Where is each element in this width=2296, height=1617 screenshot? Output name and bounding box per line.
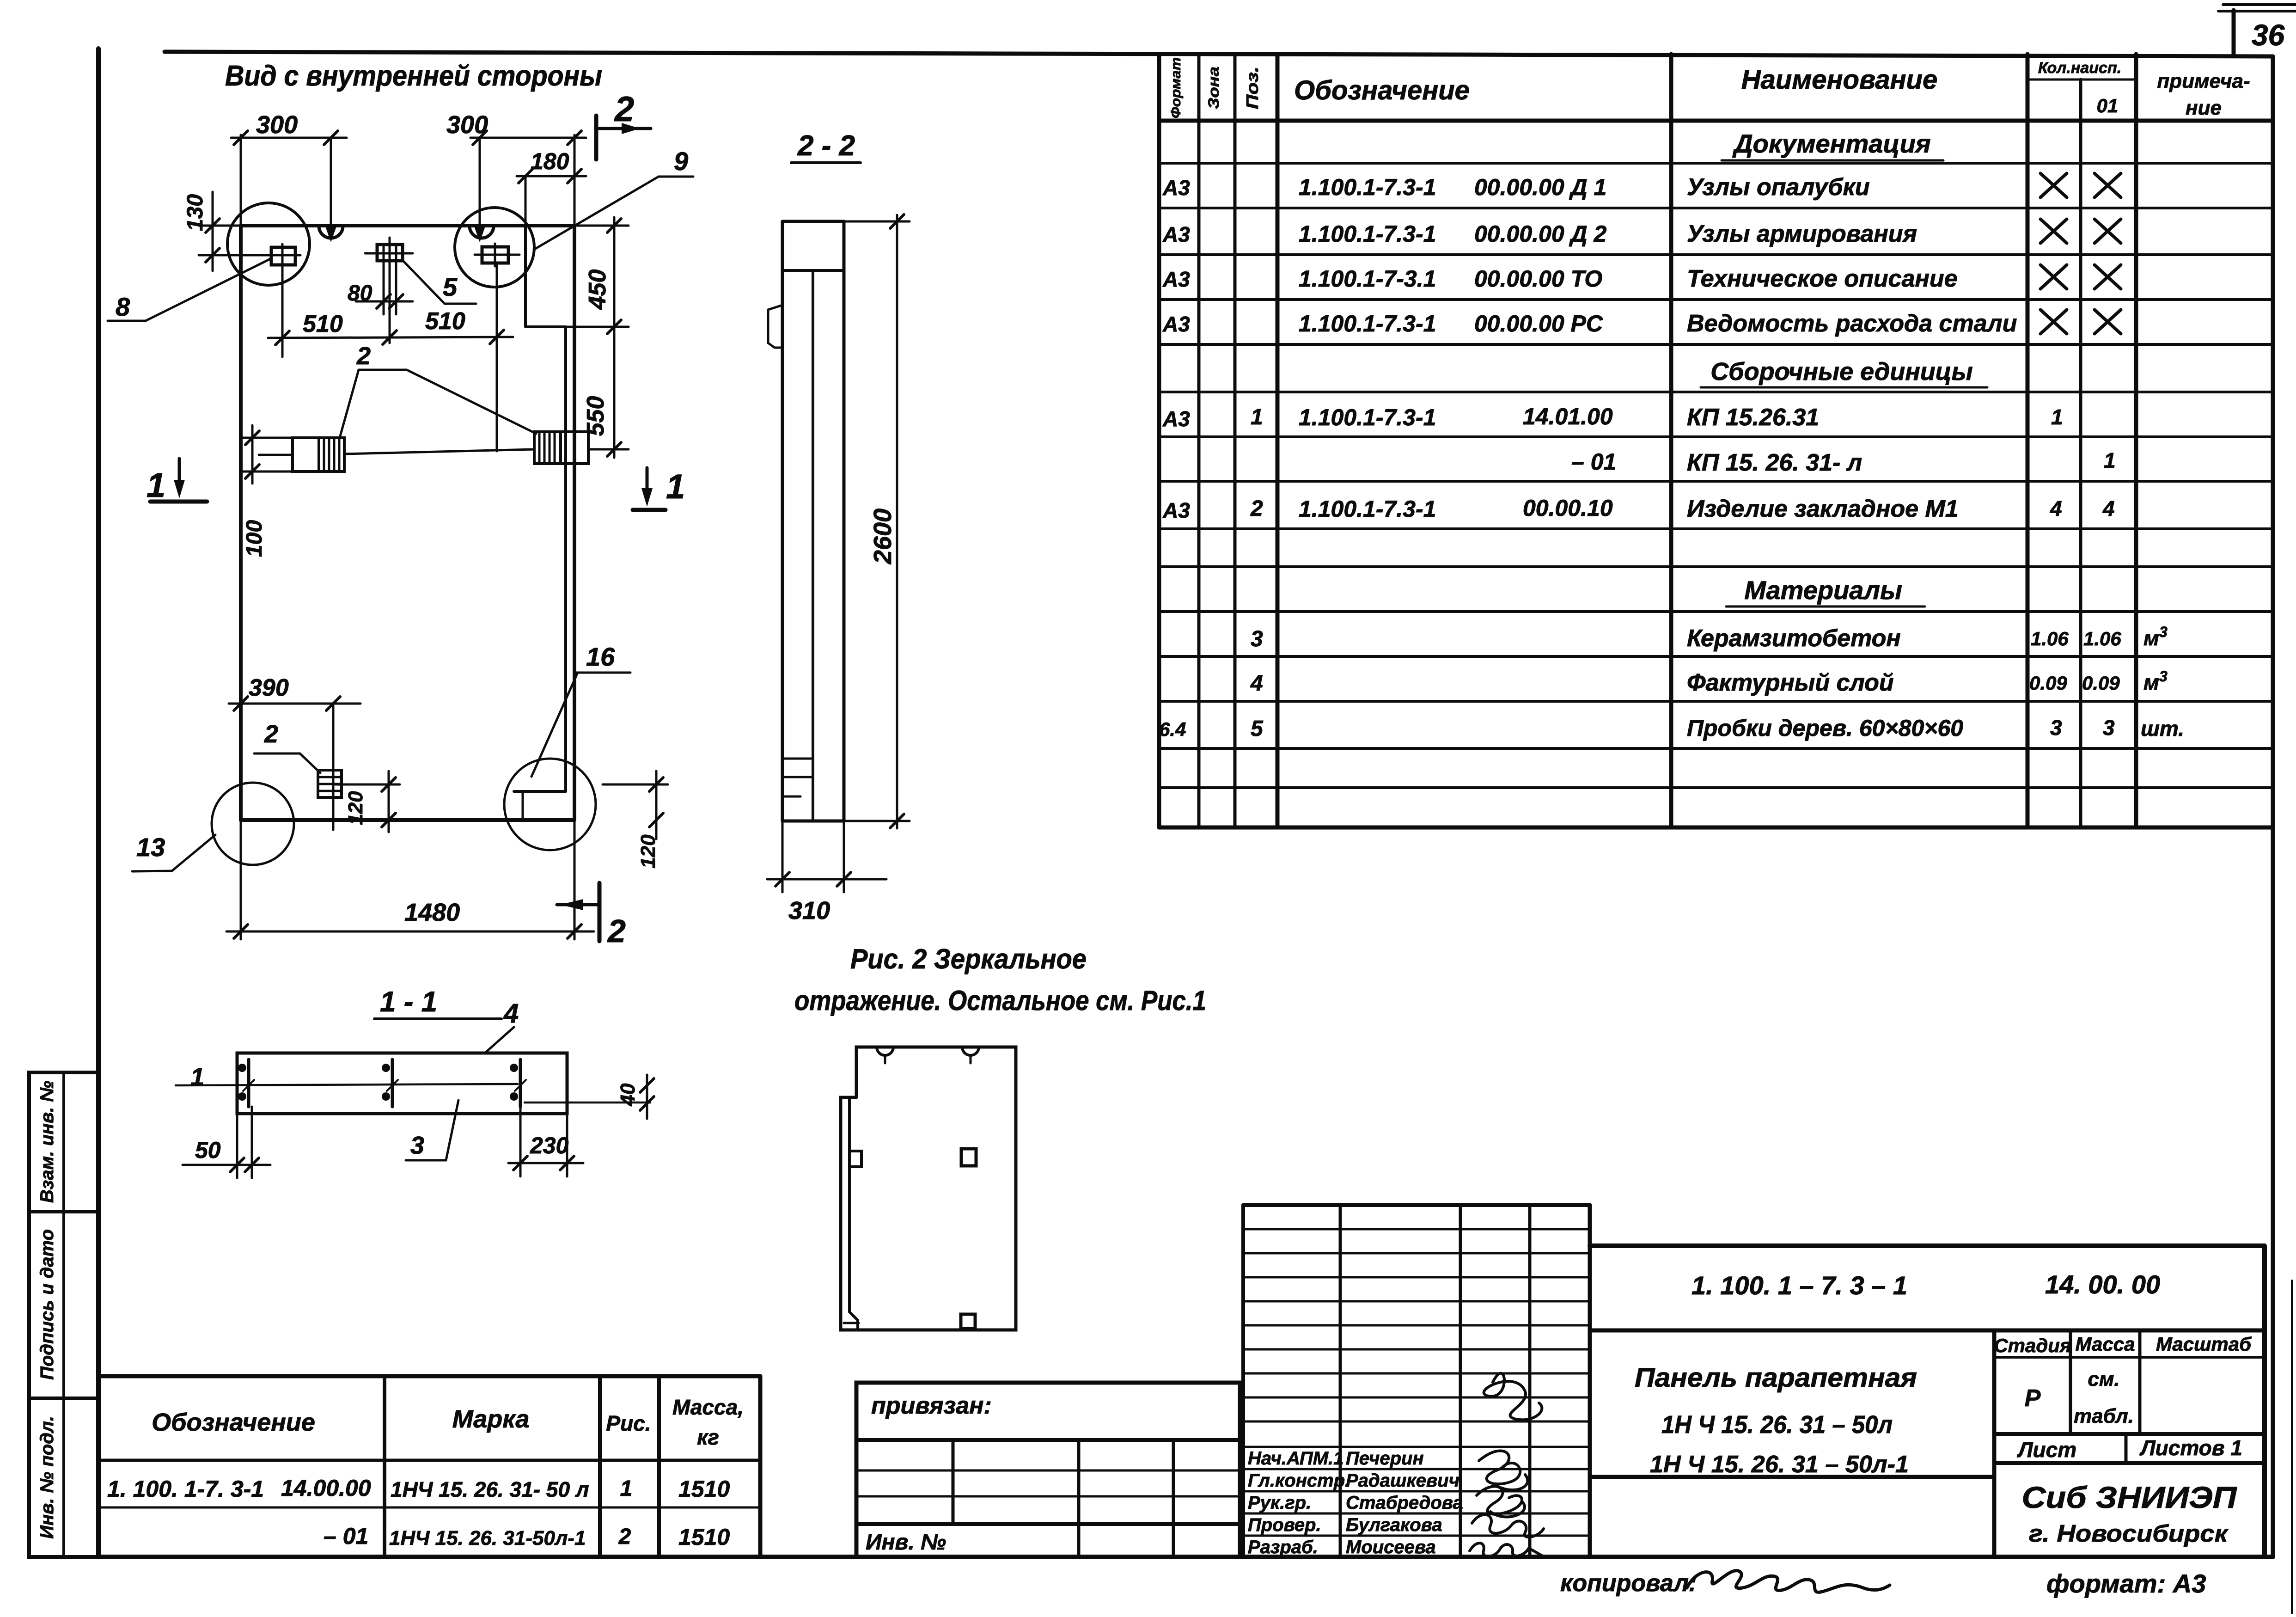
svg-text:00.00.00 Д 2: 00.00.00 Д 2 [1474,221,1607,247]
svg-text:2: 2 [614,90,634,129]
svg-text:8: 8 [116,292,130,321]
svg-text:2 - 2: 2 - 2 [797,130,855,162]
svg-text:Масштаб: Масштаб [2156,1333,2252,1355]
svg-text:1НЧ 15. 26. 31-50л-1: 1НЧ 15. 26. 31-50л-1 [389,1527,586,1550]
svg-text:00.00.00 ТО: 00.00.00 ТО [1474,266,1602,292]
svg-text:550: 550 [582,396,609,436]
svg-text:А3: А3 [1162,267,1190,291]
anchor line lower plate [332,704,335,830]
svg-text:см.: см. [2088,1368,2119,1390]
embedded plate top right [482,247,508,263]
svg-text:Гл.констр.: Гл.констр. [1248,1470,1350,1491]
svg-text:2600: 2600 [869,508,897,564]
bottom-left table outer [98,1374,760,1378]
svg-text:г. Новосибирск: г. Новосибирск [2029,1520,2229,1547]
svg-text:А3: А3 [1162,407,1190,431]
section 2-2 left fin [768,305,782,348]
svg-text:4: 4 [503,998,519,1029]
svg-text:шт.: шт. [2141,717,2184,741]
svg-text:Поз.: Поз. [1243,67,1262,109]
plan view inner left line [848,1097,851,1312]
svg-text:отражение. Остальное см. Ри: отражение. Остальное см. Рис.1 [794,985,1206,1016]
svg-text:1.06: 1.06 [2031,628,2069,649]
svg-text:13: 13 [136,833,165,862]
svg-text:формат: А3: формат: А3 [2046,1569,2206,1598]
svg-text:390: 390 [249,674,289,701]
svg-text:230: 230 [530,1133,569,1158]
svg-text:Моисеева: Моисеева [1346,1537,1436,1557]
svg-text:1: 1 [147,466,165,504]
svg-text:Лист: Лист [2017,1438,2076,1462]
svg-text:Вид с внутренней стороны: Вид с внутренней стороны [225,60,602,92]
anchor line below top-right plate [496,263,498,451]
svg-text:Рис.: Рис. [606,1411,651,1435]
plan view middle hole [961,1149,976,1166]
panel inner right edge line [564,327,567,791]
svg-text:1НЧ 15. 26. 31- 50 л: 1НЧ 15. 26. 31- 50 л [391,1477,589,1501]
svg-text:14.00.00: 14.00.00 [281,1475,371,1501]
svg-text:3: 3 [1251,627,1263,651]
svg-text:м: м [2143,626,2159,650]
svg-text:120: 120 [344,791,367,825]
spec table bottom [1159,826,2273,830]
svg-text:100: 100 [242,520,267,557]
svg-text:0.09: 0.09 [2082,672,2120,694]
sheet frame left border [96,49,101,1557]
svg-text:300: 300 [256,111,298,139]
svg-text:примеча-: примеча- [2157,70,2250,92]
svg-text:2: 2 [607,913,626,949]
callout circle bottom right [504,759,596,850]
panel top-right notch [524,226,527,327]
callout circle top left [227,203,310,285]
spec table header bottom [1159,119,2273,123]
signature table name rows [1243,1446,1590,1448]
svg-text:4: 4 [2050,496,2062,521]
svg-text:14.01.00: 14.01.00 [1523,404,1613,429]
svg-text:3: 3 [2159,624,2168,640]
panel outline [239,226,243,820]
svg-text:– 01: – 01 [1571,449,1616,475]
section 1-1 facing layer line [525,1102,650,1104]
svg-text:16: 16 [586,642,615,671]
panel bottom-right joint [514,790,566,793]
sheet frame top border [165,52,2273,56]
svg-text:1 - 1: 1 - 1 [380,986,437,1018]
svg-text:1. 100. 1 – 7. 3 – 1: 1. 100. 1 – 7. 3 – 1 [1691,1271,1907,1300]
section 2-2 bottom joint lines [782,758,813,760]
svg-text:Марка: Марка [452,1405,530,1433]
section 2-2 cap bottom [782,269,844,272]
svg-text:1: 1 [1251,405,1263,429]
svg-text:1510: 1510 [678,1476,730,1502]
svg-text:Взам. инв. №: Взам. инв. № [37,1081,57,1203]
section 1-1 axis line [176,1084,518,1085]
section 1-1 slab outline [237,1053,567,1114]
svg-text:4: 4 [1250,671,1263,696]
svg-text:КП 15. 26. 31- л: КП 15. 26. 31- л [1687,449,1862,476]
svg-text:1Н Ч 15. 26. 31 – 50л: 1Н Ч 15. 26. 31 – 50л [1661,1411,1893,1439]
svg-text:м: м [2143,670,2159,694]
svg-text:9: 9 [674,147,688,176]
plan view left slot [849,1151,861,1167]
svg-text:Материалы: Материалы [1744,576,1902,605]
privyazan block outer [856,1383,1240,1557]
svg-text:Кол.наисп.: Кол.наисп. [2038,59,2121,77]
page number box 36 [2232,10,2236,55]
svg-text:Обозначение: Обозначение [152,1409,315,1436]
svg-text:1: 1 [666,467,685,506]
svg-text:Стабредова: Стабредова [1346,1493,1463,1513]
svg-text:Изделие закладное М1: Изделие закладное М1 [1687,496,1959,522]
svg-text:2: 2 [1250,496,1263,521]
svg-text:1Н Ч 15. 26. 31 – 50л-1: 1Н Ч 15. 26. 31 – 50л-1 [1650,1451,1909,1478]
svg-text:510: 510 [303,311,343,337]
section 2-2 inner rib [812,270,814,821]
svg-text:1. 100. 1-7. 3-1: 1. 100. 1-7. 3-1 [107,1476,264,1502]
svg-text:00.00.00 Д 1: 00.00.00 Д 1 [1474,174,1606,200]
svg-text:кг: кг [697,1425,719,1449]
svg-text:Техническое описание: Техническое описание [1687,265,1958,292]
svg-text:Стадия: Стадия [1994,1335,2071,1356]
name cell bottom [1590,1475,1994,1479]
connecting line between loops [344,449,534,454]
svg-text:А3: А3 [1162,312,1190,336]
plan view bottom-left notch [849,1312,858,1330]
svg-text:14. 00. 00: 14. 00. 00 [2045,1270,2160,1299]
svg-text:Пробки дерев. 60×80×60: Пробки дерев. 60×80×60 [1687,715,1963,741]
svg-text:5: 5 [1251,717,1264,741]
title block top edge [1590,1243,2265,1248]
callout circle bottom left [212,783,294,865]
svg-text:копировал:: копировал: [1560,1570,1697,1597]
svg-text:180: 180 [531,148,569,174]
svg-text:1.100.1-7.3-1: 1.100.1-7.3-1 [1299,496,1436,522]
svg-text:1: 1 [620,1476,633,1501]
svg-text:Рис. 2 Зеркальное: Рис. 2 Зеркальное [850,943,1087,974]
plan view top ears [877,1047,893,1055]
svg-text:Радашкевич: Радашкевич [1346,1470,1459,1491]
title block signature table outer [1243,1203,1590,1207]
svg-text:Сборочные единицы: Сборочные единицы [1710,358,1973,386]
privyazan columns [952,1440,955,1524]
svg-text:40: 40 [617,1083,639,1106]
svg-text:3: 3 [2103,716,2115,740]
svg-text:1.100.1-7-3.1: 1.100.1-7-3.1 [1299,266,1436,292]
svg-text:1.100.1-7.3-1: 1.100.1-7.3-1 [1299,221,1436,247]
svg-text:– 01: – 01 [324,1523,368,1549]
spec table header underline kol.na isp. [2027,79,2136,81]
section mark 2 bottom [598,883,602,941]
svg-text:50: 50 [195,1137,221,1163]
svg-text:1.100.1-7.3-1: 1.100.1-7.3-1 [1299,311,1436,337]
anchor line below top-left plate [281,265,284,357]
spec table row lines [1159,162,2273,165]
svg-text:4: 4 [2102,496,2115,521]
svg-text:Рук.гр.: Рук.гр. [1248,1493,1311,1513]
svg-text:А3: А3 [1162,498,1190,522]
svg-text:Разраб.: Разраб. [1248,1537,1318,1557]
svg-text:Масса: Масса [2076,1333,2135,1355]
scan edge artifact line right [2291,1280,2293,1613]
svg-text:2: 2 [264,720,278,748]
svg-text:Ведомость расхода стали: Ведомость расхода стали [1687,310,2017,337]
svg-text:2: 2 [356,342,371,370]
svg-text:450: 450 [584,269,611,310]
svg-text:Фактурный слой: Фактурный слой [1687,669,1894,696]
svg-text:00.00.10: 00.00.10 [1523,495,1613,521]
svg-text:00.00.00 РС: 00.00.00 РС [1474,311,1603,337]
svg-text:Печерин: Печерин [1346,1448,1424,1469]
svg-text:1510: 1510 [678,1524,730,1550]
svg-text:3: 3 [2159,668,2168,685]
svg-text:0.09: 0.09 [2029,672,2067,694]
svg-text:Керамзитобетон: Керамзитобетон [1687,625,1901,652]
svg-text:1: 1 [2051,405,2063,429]
svg-text:01: 01 [2097,95,2119,116]
lifting recess right [470,226,494,238]
svg-text:Инв. № подл.: Инв. № подл. [37,1416,57,1539]
section 2-2 outline [782,220,844,223]
signature table thin rows [1243,1228,1590,1231]
rebar symbols [247,1060,250,1107]
callout circle top right [455,208,534,287]
svg-text:Подпись и дато: Подпись и дато [37,1229,57,1380]
svg-text:Наименование: Наименование [1741,65,1937,95]
svg-text:Узлы армирования: Узлы армирования [1687,220,1917,247]
svg-text:1.100.1-7.3-1: 1.100.1-7.3-1 [1299,174,1436,200]
svg-text:А3: А3 [1162,176,1190,200]
svg-text:Масса,: Масса, [672,1395,744,1419]
lifting loop right [534,432,561,464]
svg-text:Обозначение: Обозначение [1294,75,1470,105]
privyazan rows [856,1438,1240,1442]
sheet frame right border [2271,56,2275,1557]
svg-text:Документация: Документация [1732,129,1931,158]
embedded plate top middle [377,245,403,261]
svg-text:Зона: Зона [1205,67,1222,109]
svg-text:Инв. №: Инв. № [866,1530,946,1555]
svg-text:Провер.: Провер. [1248,1515,1321,1535]
lifting loop left [293,438,319,472]
svg-text:привязан:: привязан: [871,1392,992,1419]
title block divider under designation [1590,1329,2265,1333]
svg-text:510: 510 [425,308,465,335]
lifting recess left [319,226,343,238]
svg-text:3: 3 [410,1132,424,1159]
svg-text:5: 5 [443,272,458,301]
svg-text:Формат: Формат [1168,57,1184,118]
svg-text:ние: ние [2186,97,2222,119]
sheet frame bottom border [98,1555,2273,1559]
svg-text:КП 15.26.31: КП 15.26.31 [1687,404,1819,431]
plan view outline [841,1047,1016,1330]
svg-text:табл.: табл. [2074,1405,2134,1427]
left strip outer [29,1072,98,1557]
spec table outer verticals [1157,54,1161,827]
svg-text:Нач.АПМ.1: Нач.АПМ.1 [1248,1448,1343,1469]
svg-text:1480: 1480 [404,899,460,926]
svg-text:Булгакова: Булгакова [1346,1515,1442,1535]
svg-text:36: 36 [2252,18,2285,52]
svg-text:2: 2 [618,1525,631,1549]
signatures handwriting [1484,1373,1542,1420]
svg-text:1.100.1-7.3-1: 1.100.1-7.3-1 [1299,404,1436,430]
svg-text:6.4: 6.4 [1159,718,1186,740]
svg-text:Сиб ЗНИИЭП: Сиб ЗНИИЭП [2022,1480,2238,1514]
svg-text:1: 1 [190,1063,204,1091]
plan view bottom hole [961,1314,975,1329]
stadia block [1992,1330,1997,1557]
svg-text:310: 310 [788,897,830,925]
svg-text:1.06: 1.06 [2083,628,2121,649]
svg-text:Листов 1: Листов 1 [2139,1436,2242,1460]
svg-text:Узлы опалубки: Узлы опалубки [1687,174,1870,201]
svg-text:А3: А3 [1162,222,1190,246]
section mark 2 top [594,116,598,159]
svg-text:1: 1 [2104,448,2116,472]
svg-text:Р: Р [2025,1385,2041,1412]
embedded plate top left [271,247,295,265]
embedded plate lower left [318,770,342,797]
svg-text:3: 3 [2050,716,2062,740]
svg-text:Панель парапетная: Панель парапетная [1635,1363,1917,1393]
